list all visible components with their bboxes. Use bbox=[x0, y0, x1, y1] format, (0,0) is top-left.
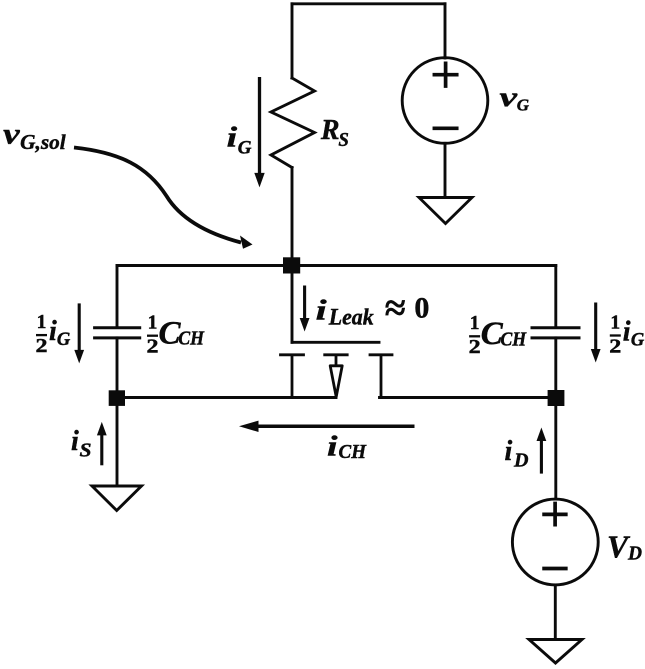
svg-text:0: 0 bbox=[414, 292, 429, 325]
svg-text:i: i bbox=[505, 436, 513, 467]
svg-text:D: D bbox=[513, 451, 529, 472]
transistor body arrow (open funnel) bbox=[330, 366, 342, 397]
label vG,sol bbox=[3, 117, 66, 154]
svg-text:2: 2 bbox=[36, 336, 48, 357]
wire: right vertical upper bbox=[554, 266, 557, 328]
ground symbol under vG bbox=[419, 198, 472, 224]
resistor R_S zigzag bbox=[271, 78, 315, 168]
vG,sol pointer curve with arrowhead bbox=[74, 148, 253, 249]
svg-text:i: i bbox=[316, 296, 327, 327]
right node (filled square) bbox=[548, 390, 565, 406]
svg-text:S: S bbox=[80, 440, 92, 461]
svg-text:i: i bbox=[227, 123, 238, 154]
svg-text:Leak: Leak bbox=[328, 304, 374, 329]
svg-text:D: D bbox=[627, 543, 642, 565]
transistor gate horizontal line bbox=[292, 341, 379, 344]
svg-text:2: 2 bbox=[147, 337, 159, 358]
label vG bbox=[500, 82, 530, 115]
wire: mid horizontal rail bbox=[117, 264, 556, 267]
wire: right node down to VD source bbox=[554, 404, 557, 499]
svg-text:2: 2 bbox=[469, 337, 481, 358]
label half-CCH (left) bbox=[147, 313, 205, 358]
wire: node A down to transistor gate bbox=[291, 266, 294, 343]
svg-text:i: i bbox=[49, 316, 57, 347]
svg-text:S: S bbox=[338, 130, 349, 151]
wire: VD to ground bbox=[554, 585, 557, 639]
svg-text:i: i bbox=[71, 426, 79, 457]
arrow half-iG right down bbox=[591, 303, 601, 363]
label VD bbox=[607, 529, 642, 564]
svg-text:1: 1 bbox=[148, 313, 158, 334]
voltage source vG circle bbox=[402, 58, 488, 144]
VD minus sign bbox=[544, 567, 566, 571]
transistor left contact (T) bbox=[281, 355, 304, 398]
label iS bbox=[71, 426, 92, 461]
svg-text:1: 1 bbox=[610, 312, 620, 333]
svg-text:CH: CH bbox=[500, 329, 527, 350]
arrow iCH pointing left bbox=[239, 421, 415, 432]
label iLeak approx 0 bbox=[316, 288, 430, 330]
svg-text:i: i bbox=[327, 432, 338, 463]
svg-text:CH: CH bbox=[339, 441, 368, 463]
wire: vG to ground bbox=[444, 143, 447, 197]
svg-text:1: 1 bbox=[470, 313, 480, 334]
wire: bottom rail right segment bbox=[380, 396, 556, 399]
wire: top-left vertical down to resistor bbox=[291, 4, 294, 78]
VD plus sign bbox=[544, 504, 566, 525]
wire: resistor bottom to node A bbox=[291, 168, 294, 261]
svg-text:2: 2 bbox=[609, 336, 621, 357]
transistor right contact (T) bbox=[370, 355, 392, 398]
arrow iLeak down bbox=[300, 286, 310, 332]
left node (filled square) bbox=[109, 390, 125, 406]
svg-text:G: G bbox=[517, 96, 530, 115]
ground symbol under left node bbox=[92, 486, 142, 511]
voltage source VD circle bbox=[512, 499, 598, 585]
wire: left vertical lower bbox=[116, 338, 119, 392]
svg-text:v: v bbox=[500, 82, 519, 112]
label RS bbox=[320, 115, 349, 151]
wire: top-right vertical down to vG source bbox=[444, 4, 447, 58]
wire: left node to ground bbox=[116, 404, 119, 486]
label half-CCH (right) bbox=[469, 313, 527, 358]
arrow half-iG left down bbox=[74, 303, 84, 363]
ground symbol under VD bbox=[529, 640, 582, 664]
node A (gate node, filled square) bbox=[283, 257, 300, 273]
label half-iG (left) bbox=[36, 312, 71, 357]
capacitor C_CH right plates bbox=[532, 328, 579, 338]
svg-text:R: R bbox=[320, 115, 340, 146]
svg-text:1: 1 bbox=[37, 312, 47, 333]
transistor middle contact (T) bbox=[325, 355, 348, 366]
wire: bottom rail left segment bbox=[117, 396, 336, 399]
svg-text:≈: ≈ bbox=[385, 288, 406, 330]
arrow iS up bbox=[97, 422, 107, 465]
vG plus sign bbox=[434, 63, 456, 86]
svg-text:i: i bbox=[623, 317, 631, 348]
wire: right vertical lower bbox=[554, 338, 557, 392]
wire: left vertical upper bbox=[116, 266, 119, 328]
capacitor C_CH left plates bbox=[95, 328, 140, 338]
arrow iG down bbox=[254, 77, 264, 187]
svg-text:G: G bbox=[57, 330, 71, 350]
svg-text:G,sol: G,sol bbox=[20, 130, 66, 154]
label iG (top) bbox=[227, 123, 252, 159]
wire: top horizontal bbox=[292, 2, 445, 5]
label iCH bbox=[327, 432, 367, 464]
label half-iG (right) bbox=[609, 312, 645, 357]
arrow iD up bbox=[537, 428, 547, 474]
svg-text:CH: CH bbox=[178, 329, 205, 350]
svg-text:v: v bbox=[3, 117, 20, 150]
label iD bbox=[505, 436, 529, 471]
svg-text:G: G bbox=[631, 330, 645, 350]
svg-text:G: G bbox=[238, 137, 252, 158]
vG minus sign bbox=[434, 126, 456, 130]
